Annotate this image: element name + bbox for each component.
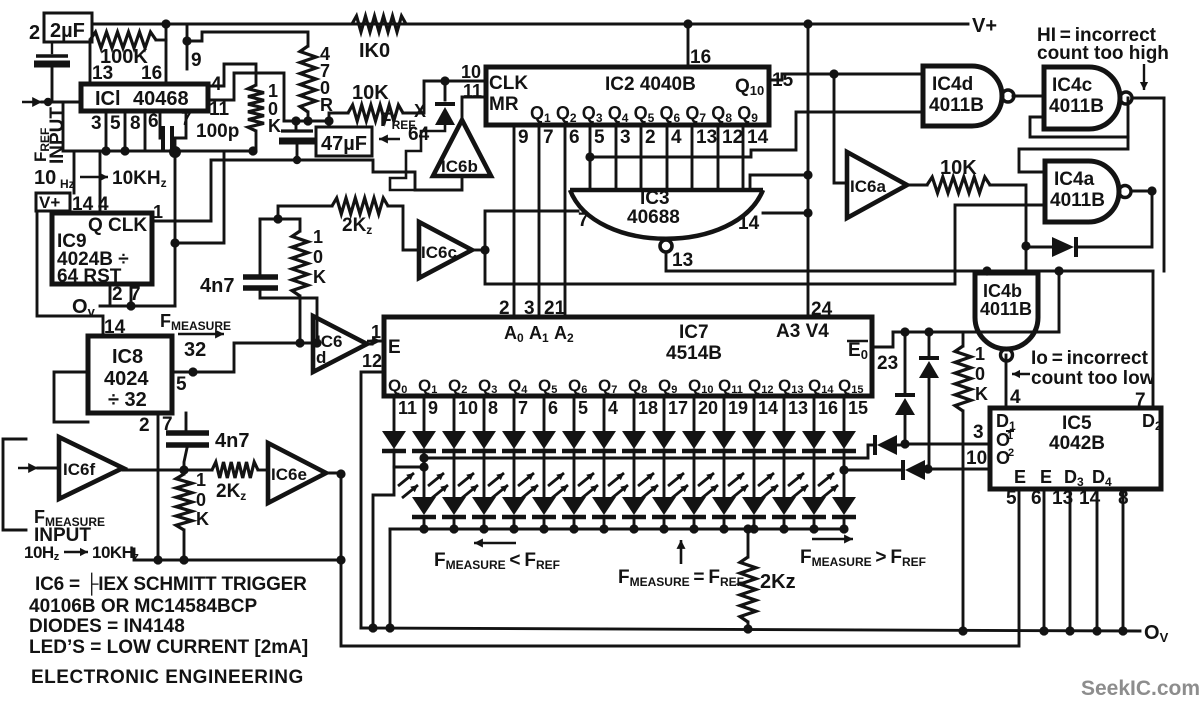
svg-text:4: 4: [211, 74, 222, 95]
svg-text:Q CLK: Q CLK: [88, 215, 147, 236]
label O1 output (IC5): [996, 430, 1014, 450]
wire ICl pin 4 to 10K resistor top: [208, 64, 256, 86]
label 1 0 K (mid): [313, 227, 326, 287]
FREF input terminal arrow: [22, 97, 81, 107]
label pin 16 (ICl): [141, 63, 162, 84]
wire IC4b output to IC5 D1 pin 4: [1006, 355, 1021, 408]
svg-text:2: 2: [1008, 447, 1014, 459]
diode X (clamp to IC2 CLK): [390, 81, 455, 190]
svg-text:K: K: [268, 116, 281, 136]
IC8 pin2 stub down to rail: [157, 413, 160, 560]
svg-text:count too low: count too low: [1031, 368, 1155, 389]
wire ICl bus down to IC9 pin14 area: [73, 153, 76, 193]
svg-text:14: 14: [758, 398, 778, 418]
svg-text:IK0: IK0: [359, 40, 390, 62]
svg-text:8: 8: [488, 398, 498, 418]
wire LED bus left end to 0V rail: [389, 529, 392, 628]
svg-text:4: 4: [671, 127, 682, 148]
svg-text:5: 5: [1006, 488, 1017, 509]
svg-text:IC4a: IC4a: [1054, 169, 1095, 190]
LED cathode stubs to bus: [424, 518, 844, 529]
label 100K: [100, 46, 148, 68]
label FMEASURE over 32: [160, 311, 231, 361]
IC7 output pin stubs: [394, 396, 844, 431]
label pin 14 (IC8): [104, 317, 126, 338]
wire branch 100p node right: [170, 152, 224, 248]
schmitt trigger IC6a: [847, 152, 907, 218]
svg-text:11: 11: [398, 398, 417, 418]
svg-text:1: 1: [196, 470, 206, 490]
svg-text:LED’S = LOW CURRENT [2mA]: LED’S = LOW CURRENT [2mA]: [29, 637, 308, 658]
svg-text:4011B: 4011B: [929, 95, 984, 116]
svg-text:5: 5: [594, 127, 605, 148]
wire IC4c output: [1132, 97, 1164, 100]
wire IC6e output junction: [326, 469, 346, 478]
svg-text:MR: MR: [489, 94, 519, 115]
IC3 output bubble pin 13: [660, 240, 693, 271]
node row2 right junction: [839, 465, 848, 474]
wire ICl pin 11 loop: [208, 73, 284, 121]
bus E0 net horizontal: [893, 331, 1059, 334]
label pins 10 11 (IC2 inputs): [461, 62, 482, 101]
svg-text:IC4d: IC4d: [932, 74, 973, 95]
label Io = incorrect count too low: [1031, 348, 1155, 389]
svg-text:15: 15: [772, 70, 794, 91]
node FREF input junction: [44, 98, 52, 106]
IC U5 IC5 4042B latch box: [990, 408, 1161, 489]
svg-text:IC6f: IC6f: [63, 460, 95, 479]
wire to IC5 pin 10: [928, 448, 990, 469]
FMEASURE input terminal arrow: [18, 463, 59, 473]
svg-text:6: 6: [1031, 488, 1042, 509]
svg-text:13: 13: [672, 250, 693, 271]
wire IC3 pin13 output line: [666, 252, 1153, 271]
junction dots measure rail: [153, 555, 188, 564]
node bus row1 left end: [419, 453, 428, 462]
svg-text:E: E: [1014, 467, 1026, 487]
svg-text:3: 3: [973, 422, 984, 443]
LED row 2 (low current x15): [412, 497, 856, 517]
label IC3 40688: [627, 188, 680, 228]
label 1 0 K (E0): [975, 344, 988, 404]
schmitt trigger IC6b (points up): [433, 120, 491, 176]
nand gate IC4a 4011B: [1045, 161, 1131, 222]
svg-text:16: 16: [141, 63, 162, 84]
wire IC4b input B stub: [1025, 246, 1028, 273]
svg-text:10K: 10K: [352, 82, 389, 104]
svg-text:40106B OR MC14584BCP: 40106B OR MC14584BCP: [29, 596, 257, 617]
label pin 9 and stub (ICl): [182, 36, 201, 71]
note DIODES = IN4148: [29, 616, 185, 637]
svg-text:2: 2: [139, 415, 150, 436]
node IC4a output junction: [1133, 186, 1157, 195]
resistor R 10K (to IC2 clock): [329, 81, 486, 121]
power rail V+ (top): [92, 15, 997, 37]
svg-text:4514B: 4514B: [666, 343, 722, 364]
schmitt trigger IC6d: [313, 316, 367, 372]
wire IC6b output to IC2 MR: [462, 97, 486, 120]
wire IC7 E0 pin 23 to diode network: [872, 332, 898, 374]
svg-text:10: 10: [966, 448, 987, 469]
svg-text:ICl: ICl: [95, 88, 121, 110]
svg-text:32: 32: [184, 339, 206, 361]
svg-text:IC2 4040B: IC2 4040B: [605, 74, 696, 95]
node diode D up-left branch: [900, 327, 909, 336]
svg-text:5: 5: [578, 398, 588, 418]
node IC2 CLK junction: [440, 76, 449, 85]
annotation FMEASURE = FREF: [618, 540, 744, 589]
label IC2 4040B: [605, 74, 696, 95]
LED common bus (bottom): [390, 528, 844, 531]
svg-text:64: 64: [408, 124, 430, 145]
label 2Kz: [760, 571, 796, 593]
svg-text:10KHz: 10KHz: [112, 168, 167, 190]
label IC4a 4011B: [1050, 169, 1105, 211]
wire IC4c output to IC4a input A: [1019, 137, 1128, 172]
svg-text:0: 0: [196, 490, 206, 510]
wire IC8 pin5 out to IC6d input: [172, 343, 313, 377]
label 10K: [352, 82, 389, 104]
label FMEASURE INPUT: [34, 507, 105, 546]
label pin 5 (IC8): [176, 374, 187, 395]
svg-text:IC6 = ├IEX SCHMITT TRIGGER: IC6 = ├IEX SCHMITT TRIGGER: [35, 572, 307, 596]
svg-text:K: K: [313, 267, 326, 287]
measure ground rail: [134, 549, 346, 565]
wire to IC5 pin 3: [905, 422, 990, 444]
V+ distribution line down to IC7 pin 24: [808, 24, 833, 320]
svg-text:2: 2: [29, 22, 40, 44]
svg-text:40468: 40468: [133, 88, 189, 110]
label A3 V4: [776, 321, 829, 342]
labels IC7 bottom pin numbers: [398, 398, 868, 418]
wire IC4a output to steering diode: [1078, 191, 1152, 247]
svg-text:3: 3: [524, 298, 535, 319]
wire IC9 clock pin1 to FREFx64 net: [152, 220, 211, 223]
svg-text:IC5: IC5: [1062, 413, 1092, 434]
IC U7 IC7 4514B decoder box: [384, 317, 872, 396]
schmitt trigger IC6c: [419, 222, 472, 278]
svg-text:4011B: 4011B: [1050, 190, 1105, 211]
svg-text:÷ 32: ÷ 32: [108, 389, 147, 411]
svg-text:3: 3: [91, 113, 102, 134]
wire V+ rail to ICl pin 9 branch: [186, 24, 189, 41]
label pin 1 with arrow (IC7 E): [367, 322, 384, 346]
resistor R 2Kz (LED bus to 0V): [740, 524, 756, 629]
labels pins 2 7 (IC8 bottom): [139, 414, 173, 436]
svg-text:count too high: count too high: [1037, 43, 1169, 64]
label HI = incorrect count too high: [1037, 25, 1169, 64]
diode vertical up (to O2 line): [919, 332, 939, 469]
capacitor 2uF boxed label: [29, 13, 92, 44]
svg-text:3: 3: [620, 127, 631, 148]
svg-text:17: 17: [668, 398, 688, 418]
wire V+ branch to resistor 470R top: [187, 32, 308, 46]
wire IC3 pin14 to V+ line: [763, 208, 813, 217]
wire 2uF to FREF input line: [51, 67, 54, 102]
note 40106B OR MC14584BCP: [29, 596, 257, 617]
comparator IC3 40688 (D-shape): [570, 190, 763, 239]
svg-text:d: d: [316, 348, 326, 367]
wire IC7 pin 12 down to 0V rail: [361, 372, 384, 628]
svg-text:6: 6: [548, 398, 558, 418]
wire ICl pin16 from V+ rail: [165, 24, 168, 84]
nand gate IC4d 4011B: [923, 66, 1014, 126]
wire IC2 pin16 from V+ rail: [688, 24, 711, 68]
annotation arrow (count too low): [1012, 370, 1030, 378]
capacitor 47uF symbol: [279, 121, 317, 160]
capacitor 4n7 (upper) symbol: [243, 219, 317, 343]
svg-text:CLK: CLK: [489, 73, 528, 94]
svg-text:10: 10: [461, 62, 481, 82]
label pin 4 (ICl): [211, 74, 222, 95]
svg-text:100p: 100p: [196, 121, 239, 142]
label 10Hz to 10KHz (reference): [34, 167, 167, 191]
svg-text:5: 5: [176, 374, 187, 395]
annotation FMEASURE < FREF: [434, 539, 560, 572]
svg-text:7: 7: [578, 210, 589, 231]
resistor R 100K (feedback over ICl): [90, 32, 166, 84]
svg-text:IC3: IC3: [640, 188, 670, 209]
svg-text:4: 4: [608, 398, 618, 418]
capacitor 4n7 (lower) symbol: [166, 433, 209, 470]
label IC7 4514B: [666, 322, 722, 364]
node IC4b input A branch: [982, 266, 991, 275]
IC U9 IC9 4024B divider box: [52, 213, 152, 284]
label 2Kz (upper): [342, 215, 372, 237]
IC U8 IC8 4024 divider box: [88, 336, 172, 413]
label 10Hz to 10KHz (measure): [24, 543, 139, 563]
IC5 bottom pin stubs to 0V: [1044, 489, 1123, 631]
labels pins 14 4 (IC9 top): [72, 194, 109, 215]
labels pins 3 5 8 6 7 (ICl): [91, 109, 192, 134]
label 4n7 (lower): [215, 430, 249, 452]
IC9 bottom pin stubs: [110, 284, 131, 306]
label 4 7 0 R: [320, 44, 333, 115]
wire Q0 column down to 0V rail: [373, 467, 394, 628]
svg-text:E: E: [388, 337, 401, 358]
svg-text:ELECTRONIC ENGINEERING: ELECTRONIC ENGINEERING: [31, 667, 304, 688]
svg-text:Hz: Hz: [60, 177, 75, 191]
svg-text:15: 15: [848, 398, 868, 418]
label IC4d 4011B: [929, 74, 984, 116]
label Q10 output (IC2): [735, 76, 764, 98]
junction on V+ rail to V+ distribution line: [803, 19, 812, 28]
svg-text:6: 6: [148, 111, 159, 132]
svg-text:20: 20: [698, 398, 718, 418]
svg-text:0: 0: [975, 364, 985, 384]
svg-text:4: 4: [1010, 387, 1021, 408]
node 2Kz junction (upper): [273, 214, 282, 223]
capacitor 47uF boxed label: [316, 127, 372, 156]
svg-text:40688: 40688: [627, 207, 680, 228]
resistor R 1 0 K (mid): [278, 219, 308, 343]
label 1 0 K vertical: [268, 81, 281, 136]
boxed label V+ (IC9): [36, 193, 70, 212]
resistor R 1 0 K vertical (at ICl pin 4): [248, 85, 264, 151]
svg-text:23: 23: [877, 353, 898, 374]
label E input (IC7): [388, 337, 401, 358]
wire E0 feedback down right: [1054, 266, 1063, 332]
ICl bottom pin stubs 3,5,8: [106, 111, 145, 151]
annotation FMEASURE > FREF: [800, 535, 926, 569]
svg-text:9: 9: [518, 127, 529, 148]
svg-text:12: 12: [722, 127, 743, 148]
svg-text:4011B: 4011B: [980, 299, 1032, 319]
svg-text:10: 10: [34, 167, 56, 189]
net FREFx64: 47uF to IC9 clock and IC6b input: [211, 160, 462, 221]
labels IC7 top pins 2 3 21: [499, 298, 566, 319]
note IC6 = HEX SCHMITT TRIGGER: [35, 572, 307, 596]
resistor R 1 0 K (lower): [176, 470, 192, 560]
IC2 output pin stubs Q1-Q3 long to IC7: [514, 125, 565, 317]
label Ov (IC9 ground): [72, 296, 96, 319]
svg-text:14: 14: [738, 213, 760, 234]
node O2 net junction: [923, 464, 932, 473]
label pin 12 (IC7): [362, 351, 382, 371]
wire column Q0 special route: [393, 450, 396, 467]
svg-text:IC6a: IC6a: [850, 177, 886, 196]
node diode D up-right branch: [924, 327, 933, 336]
wire IC4d output to IC4c input: [1013, 95, 1044, 98]
svg-text:INPUT: INPUT: [47, 107, 68, 164]
label 2Kz (lower): [216, 481, 246, 503]
node junction row at 47uF top: [284, 116, 334, 125]
annotation arrow (count too high): [1140, 64, 1148, 90]
label D1 (IC5): [996, 411, 1016, 433]
labels Q CLK (IC9): [88, 215, 147, 236]
label D2 (IC5): [1142, 411, 1162, 433]
svg-text:E: E: [1040, 467, 1052, 487]
wire IC4c output down to IC5 D2 pin 7: [1135, 98, 1164, 411]
svg-text:47µF: 47µF: [321, 133, 367, 155]
label 4n7 (upper): [200, 275, 234, 297]
wire IC6a input from Q10 net: [834, 74, 847, 183]
svg-text:2: 2: [645, 127, 656, 148]
resistor R 2Kz (lower): [212, 462, 268, 478]
schmitt trigger IC6f: [59, 437, 123, 499]
capacitor 100p symbol: [160, 111, 186, 150]
node diode junction at IC4b input B: [1021, 241, 1030, 250]
wire Q4 tap to IC4d input B: [590, 112, 923, 157]
svg-text:4042B: 4042B: [1049, 433, 1105, 454]
svg-text:A3 V4: A3 V4: [776, 321, 829, 342]
note LEDS = LOW CURRENT [2mA]: [29, 637, 308, 658]
svg-text:21: 21: [544, 298, 566, 319]
RST stub loop on IC8 left: [54, 372, 88, 422]
svg-text:10KHz: 10KHz: [92, 543, 139, 563]
wire IC6f output to filter junction: [123, 465, 212, 474]
label O2 output (IC5): [996, 447, 1014, 468]
svg-text:IC8: IC8: [112, 346, 143, 368]
annotation arrow into 47uF node: [379, 135, 400, 144]
node tap on Q4 line: [585, 152, 594, 161]
svg-text:0: 0: [313, 247, 323, 267]
wire Q0 to bus2 link: [394, 462, 429, 471]
labels CLK MR (IC2): [489, 73, 528, 115]
svg-text:1: 1: [313, 227, 323, 247]
junction 47uF bottom on FREFx64 net: [293, 156, 301, 164]
svg-text:11: 11: [209, 99, 230, 120]
wire IC6c output to IC3 pin 7: [472, 211, 578, 255]
svg-text:13: 13: [92, 63, 113, 84]
svg-text:1: 1: [975, 344, 985, 364]
label IC6b: [441, 157, 478, 176]
wire IC4c feedback loop to own input: [1030, 98, 1128, 137]
svg-text:5: 5: [110, 113, 121, 134]
label E0 bar output: [847, 340, 868, 362]
labels Q0-Q15 (IC7): [388, 376, 863, 396]
svg-text:1: 1: [153, 202, 163, 222]
junction dots on ICl ground bus: [101, 146, 257, 155]
ground bus under ICl: [63, 102, 253, 151]
IC U2 IC2 4040B counter box: [486, 67, 769, 125]
diode row 1 (IN4148 x16): [382, 431, 856, 451]
left edge wire: [3, 439, 26, 530]
svg-text:IC4b: IC4b: [983, 281, 1022, 301]
svg-text:IC6b: IC6b: [441, 157, 478, 176]
label IC4c 4011B: [1049, 75, 1104, 117]
svg-text:9: 9: [191, 50, 202, 71]
labels IC2 bottom pin numbers: [518, 127, 769, 148]
labels IC5 bottom pins 5 6 13 14 8: [1006, 488, 1129, 509]
label pin 7 (IC3): [578, 210, 589, 231]
watermark SeekIC.com: [1081, 677, 1200, 700]
wire IC4b input A stub: [986, 271, 989, 273]
svg-text:2µF: 2µF: [50, 20, 85, 42]
IC8 pin7 stub to 4n7: [185, 413, 188, 431]
label 100p: [196, 121, 239, 142]
wire ground drop from 100p node: [174, 152, 177, 306]
svg-text:19: 19: [728, 398, 748, 418]
diode vertical up (to O1 line): [895, 332, 915, 444]
svg-text:8: 8: [130, 113, 141, 134]
junction dots LED bus: [419, 524, 848, 533]
LED arrows row 2: [398, 473, 838, 498]
svg-text:11: 11: [463, 81, 482, 101]
svg-text:1: 1: [268, 81, 278, 101]
svg-text:IC6c: IC6c: [421, 243, 457, 262]
capacitor 2uF symbol: [34, 42, 70, 64]
svg-text:7: 7: [543, 127, 554, 148]
wire IC2 Q10 pin15 to IC4d input A: [769, 70, 923, 91]
label FREF X 64: [380, 101, 430, 145]
svg-text:16: 16: [818, 398, 838, 418]
svg-text:10: 10: [458, 398, 478, 418]
diode steering (IN4148) at IC4b: [1026, 237, 1076, 257]
node O1 net junction: [900, 439, 909, 448]
svg-text:Io = incorrect: Io = incorrect: [1031, 348, 1149, 369]
wire cascade input to V+ line: [750, 170, 813, 190]
nand gate IC4b 4011B (points down): [975, 273, 1038, 361]
svg-text:V+: V+: [972, 15, 997, 37]
IC2 output pin stubs Q4-Q9 to IC3: [590, 125, 743, 190]
wire ICl bus down to IC9 pin4: [99, 153, 102, 211]
resistor R 1 0 K (E0 pull): [955, 332, 971, 632]
label pin 11 (ICl): [209, 99, 230, 120]
svg-text:IC6e: IC6e: [271, 465, 307, 484]
svg-text:7: 7: [518, 398, 528, 418]
svg-text:2: 2: [112, 284, 123, 305]
IC U1 ICl 40468 oscillator box: [81, 84, 208, 111]
node branch to IC6a input: [829, 69, 838, 78]
diode horizontal left-pointing (row1 to O1): [868, 435, 905, 455]
svg-text:IC4c: IC4c: [1052, 75, 1093, 96]
svg-text:14: 14: [747, 127, 769, 148]
wire IC6c output to IC4a input B: [485, 205, 1045, 284]
svg-text:2: 2: [499, 298, 510, 319]
label IC4b 4011B: [980, 281, 1032, 319]
svg-text:4011B: 4011B: [1049, 96, 1104, 117]
